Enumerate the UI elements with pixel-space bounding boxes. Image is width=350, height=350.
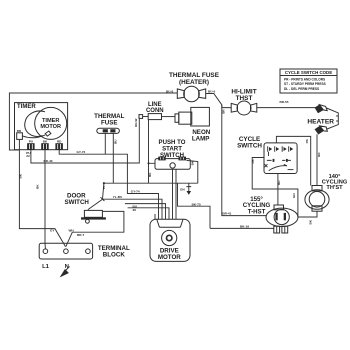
- svg-text:BR: BR: [222, 109, 226, 114]
- svg-text:BK: BK: [148, 172, 152, 177]
- cycle switch contacts row 2: [267, 159, 291, 162]
- ground GN at push-to-start: [180, 183, 191, 195]
- svg-text:BK: BK: [43, 140, 48, 144]
- svg-text:GY-74: GY-74: [131, 189, 140, 193]
- svg-text:GY-74: GY-74: [77, 150, 86, 154]
- neon lamp: [175, 107, 211, 142]
- line conn: [143, 102, 164, 120]
- svg-text:HEATER: HEATER: [307, 119, 334, 126]
- 140 cycling thermostat: [305, 174, 348, 211]
- wire: branch up to thermal fuse left terminal: [104, 133, 106, 154]
- svg-text:36: 36: [133, 208, 137, 212]
- wire: thermal fuse to hi-limit + BR drop: [206, 94, 267, 216]
- hi-limit thermostat: [231, 88, 257, 115]
- wire: timer BK terminal to terminal block L1: [36, 150, 46, 249]
- wire: hi-limit to heater BR-55: [257, 100, 317, 108]
- cycle switch contacts row 1: [268, 146, 294, 156]
- svg-text:BU-6: BU-6: [208, 89, 215, 93]
- cycle switch: [237, 136, 297, 174]
- svg-text:BK-19: BK-19: [240, 224, 249, 228]
- timer terminal RD: [55, 140, 63, 150]
- 155 thermostat bottom tabs: [274, 226, 288, 233]
- wire: door area to motor pin 3: [125, 204, 166, 214]
- wire: drop to door switch lever: [102, 183, 106, 199]
- thermal fuse (heater): [166, 72, 220, 102]
- heater element: [307, 105, 338, 135]
- svg-text:RD: RD: [57, 140, 62, 144]
- svg-text:ST - STURDY PERM PRESS: ST - STURDY PERM PRESS: [284, 82, 326, 86]
- svg-text:PK: PK: [305, 138, 309, 143]
- svg-text:MOTOR: MOTOR: [40, 124, 61, 130]
- timer cam lobe: [25, 111, 45, 136]
- svg-text:YL-BU: YL-BU: [113, 195, 123, 199]
- svg-text:(HEATER): (HEATER): [179, 79, 209, 86]
- svg-text:L1: L1: [42, 264, 50, 270]
- cycle switch code legend: [280, 69, 337, 93]
- wire: BK-19 run to 155 thermostat: [210, 224, 274, 228]
- timer motor M: [35, 107, 67, 139]
- svg-text:TH'ST: TH'ST: [326, 185, 343, 191]
- wire: line conn feed down to push-to-start switch: [148, 120, 156, 184]
- svg-text:BR: BR: [17, 129, 22, 133]
- svg-text:SWITCH: SWITCH: [65, 199, 90, 206]
- wire: timer RD terminal GY-74 run to drive motor: [59, 150, 158, 214]
- svg-text:TIMER: TIMER: [42, 118, 59, 124]
- svg-text:PU: PU: [29, 140, 34, 144]
- svg-text:T-HST: T-HST: [248, 208, 266, 215]
- drive motor connector flange: [157, 219, 183, 227]
- wire: 140 thermostat to junction BK: [309, 219, 313, 224]
- wire: door lever YL-BU to motor: [103, 195, 163, 214]
- thermal fuse (dryer): [94, 113, 124, 133]
- svg-text:BR-55: BR-55: [280, 100, 289, 104]
- svg-text:PR - PRINTS AND COLORS: PR - PRINTS AND COLORS: [284, 78, 325, 82]
- svg-text:LAMP: LAMP: [192, 135, 210, 142]
- svg-text:WH: WH: [69, 228, 75, 232]
- timer terminal TM (square): [17, 129, 23, 140]
- svg-text:BU: BU: [277, 180, 281, 185]
- wire: switch drops to motor connector: [173, 169, 177, 214]
- wire: bottom run under push-to-start switch: [103, 182, 198, 184]
- wire: cycle switch left pin loop GN: [251, 158, 317, 218]
- svg-text:BR-7: BR-7: [77, 233, 84, 237]
- wire: door area to motor pin 4: [128, 208, 169, 214]
- cycle switch wiper: [265, 164, 294, 170]
- svg-text:BU: BU: [113, 139, 117, 144]
- svg-text:RD: RD: [317, 152, 321, 157]
- wire: L1 main line top/left border: [9, 93, 177, 150]
- timer cam follower: [22, 131, 50, 138]
- svg-text:GN: GN: [180, 188, 185, 192]
- wire: push-to-start to cycling thermostats BK-70: [178, 183, 211, 228]
- wire: heater to 140 thermostat RD: [317, 134, 321, 185]
- svg-text:PK: PK: [251, 158, 255, 163]
- svg-text:MOTOR: MOTOR: [158, 254, 181, 261]
- svg-text:LINE: LINE: [148, 102, 162, 108]
- door switch: [65, 192, 106, 223]
- wire: timer TM terminal to terminal block N (GY): [19, 139, 66, 246]
- svg-text:BK: BK: [309, 219, 313, 224]
- wire: line conn to neon lamp: [162, 116, 176, 118]
- svg-text:BK: BK: [191, 160, 195, 165]
- wire: push-to-start right side loop: [186, 160, 197, 183]
- svg-text:BK: BK: [19, 173, 23, 178]
- timer terminal BK: [41, 140, 49, 150]
- push to start switch terminal 2: [179, 157, 187, 161]
- timer box: [15, 103, 68, 150]
- node L1: [42, 264, 50, 270]
- terminal block: [39, 243, 130, 259]
- wire: cycle switch top pin PK: [276, 136, 310, 185]
- node: line connector junction: [134, 115, 143, 127]
- svg-text:CYCLE SWITCH CODE: CYCLE SWITCH CODE: [285, 70, 332, 75]
- push to start switch terminal 1: [158, 157, 166, 161]
- svg-text:GN: GN: [292, 193, 296, 198]
- wire: timer PU terminal RD-40 run to line conn junction: [31, 119, 139, 163]
- label PU-22: [26, 151, 31, 158]
- svg-text:BK: BK: [36, 184, 40, 189]
- ground: neutral arrow under N: [60, 267, 70, 278]
- svg-text:BK-70: BK-70: [192, 202, 201, 206]
- svg-text:TIMER: TIMER: [17, 104, 36, 110]
- timer terminal PU: [27, 140, 34, 150]
- svg-text:DL - DEL PERM PRESS: DL - DEL PERM PRESS: [284, 87, 319, 91]
- wire: thermal fuse right terminal down (BU): [113, 133, 117, 183]
- svg-text:22: 22: [26, 154, 30, 158]
- svg-text:BR-41: BR-41: [222, 211, 231, 215]
- svg-text:RD-40: RD-40: [44, 159, 53, 163]
- drive motor: [150, 219, 190, 261]
- svg-text:FUSE: FUSE: [101, 120, 118, 127]
- node N: [65, 264, 69, 270]
- 155 cycling thermostat: [243, 196, 298, 227]
- wire: door switch common to terminal block N (WH): [66, 211, 124, 246]
- svg-text:YL: YL: [102, 185, 106, 189]
- svg-text:BU-6: BU-6: [166, 89, 173, 93]
- drive motor connector pins: [155, 214, 176, 219]
- svg-text:BLOCK: BLOCK: [103, 251, 126, 258]
- wire: cycle switch bottom pin BU: [277, 174, 281, 206]
- svg-text:RD-W: RD-W: [134, 119, 138, 127]
- svg-text:SWITCH: SWITCH: [237, 143, 262, 150]
- push to start switch: [155, 139, 190, 169]
